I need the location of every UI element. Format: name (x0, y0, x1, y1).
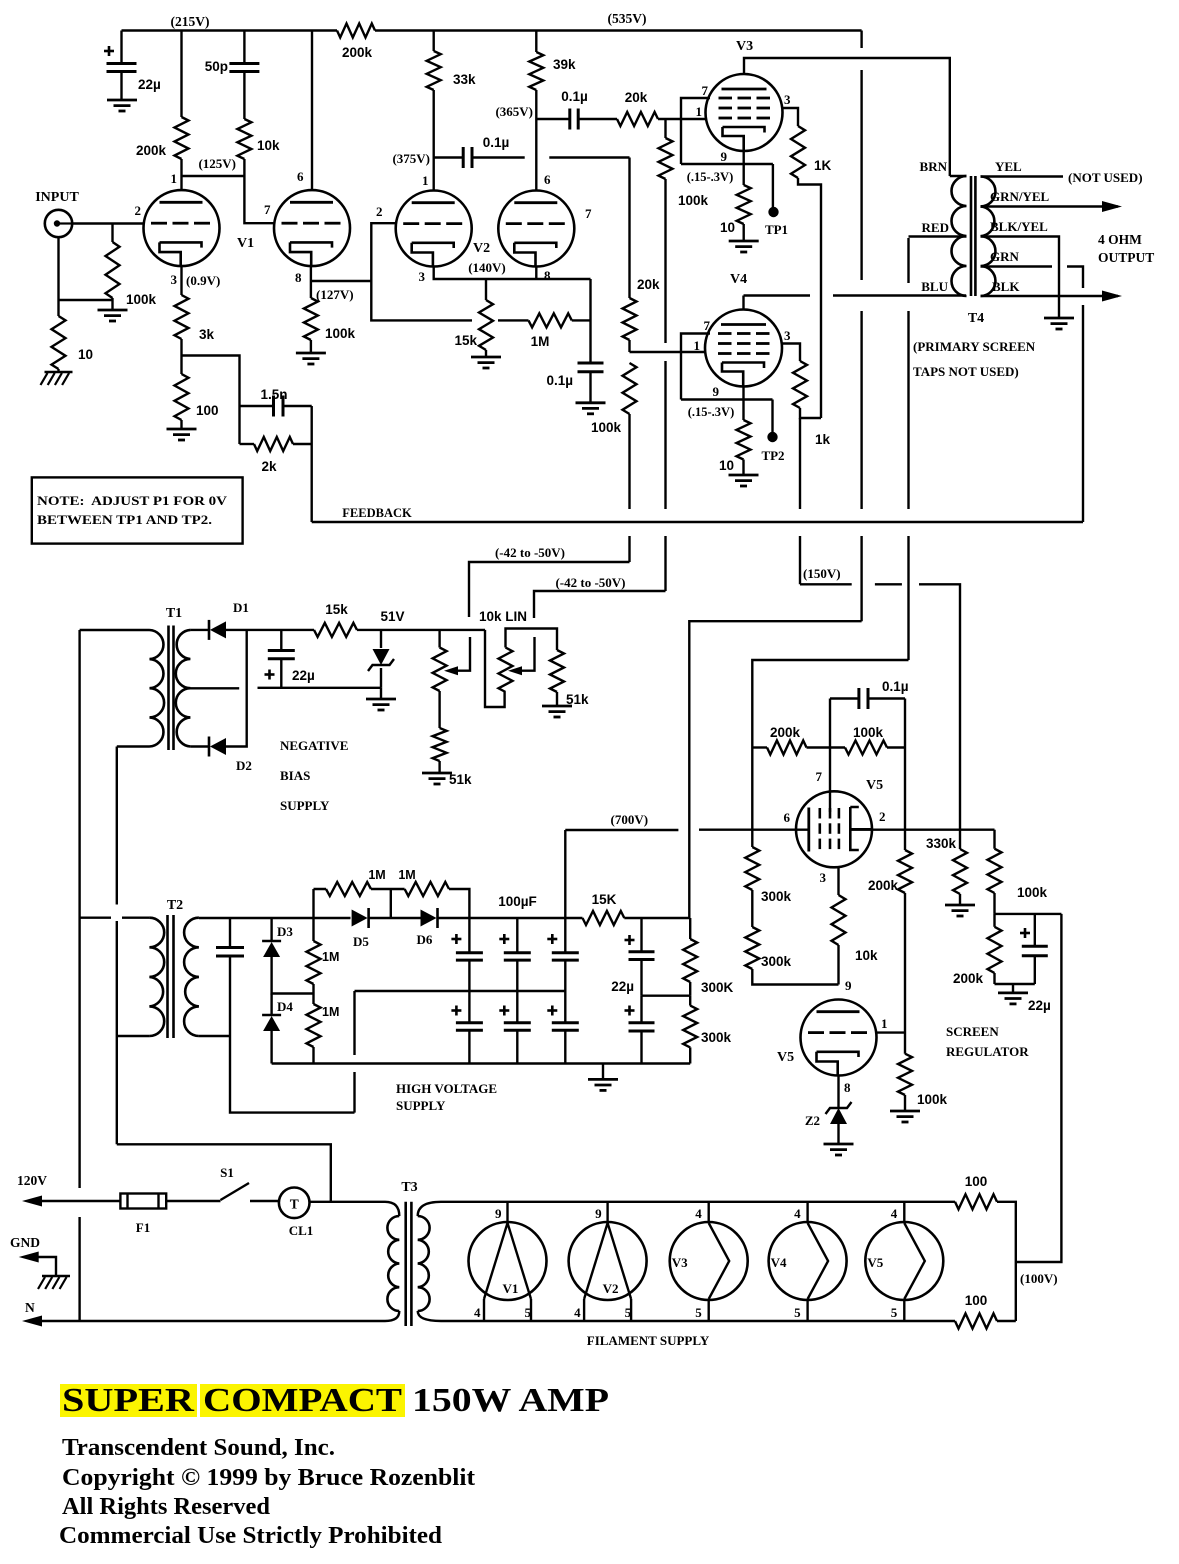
capacitor bank column 3 upper (564, 918, 566, 953)
resistor 51k (P1a to ground) (433, 728, 447, 761)
svg-text:SUPPLY: SUPPLY (280, 798, 330, 813)
svg-text:10: 10 (720, 220, 735, 235)
svg-text:33k: 33k (453, 72, 476, 87)
svg-text:(NOT USED): (NOT USED) (1068, 170, 1143, 185)
wire V4 cathode pin 9 (742, 386, 744, 420)
tube V2a (phase splitter) (396, 191, 472, 267)
svg-text:8: 8 (295, 270, 302, 285)
svg-text:22µ: 22µ (292, 668, 315, 683)
resistor 3k (V1a cathode) (180, 266, 182, 295)
transformer T1 core (167, 626, 170, 751)
svg-text:7: 7 (585, 206, 592, 221)
wire GND with arrow to earth (19, 1252, 39, 1263)
svg-text:BLK: BLK (992, 279, 1020, 294)
wire filament rail right side (997, 1202, 1016, 1321)
wire T2 primary bottom to hot rail (117, 1035, 150, 1037)
svg-text:1: 1 (694, 338, 701, 353)
resistor 10 (ground lift) (52, 316, 66, 369)
wire D5 to D6 (369, 917, 421, 919)
svg-text:V1: V1 (503, 1281, 519, 1296)
svg-text:1M: 1M (322, 1005, 339, 1019)
tube V1b (second triode) (274, 190, 350, 266)
transformer T1 primary winding (150, 630, 165, 747)
wire V2 cathode to 0.1u bypass (589, 279, 591, 363)
resistor 100 (V1a cathode) (180, 356, 182, 375)
ground (Z2) (824, 1143, 854, 1146)
svg-text:120V: 120V (17, 1173, 47, 1188)
wire 535V link to HV supply (689, 621, 861, 918)
capacitor bank column 1 lower (468, 991, 470, 1023)
ground (V4 10 ohm) (729, 474, 759, 477)
filament V3 (4-5 heater) (670, 1222, 748, 1300)
svg-text:D6: D6 (417, 932, 433, 947)
resistor 200k (V5a plate load to V5b) (904, 830, 906, 850)
svg-text:D1: D1 (233, 600, 249, 615)
svg-text:(125V): (125V) (198, 156, 236, 171)
svg-text:(140V): (140V) (468, 260, 506, 275)
svg-text:GND: GND (10, 1235, 40, 1250)
svg-text:1k: 1k (815, 432, 831, 447)
wire (100V) feed to filament supply (1016, 914, 1062, 1262)
svg-text:(375V): (375V) (392, 151, 430, 166)
svg-text:39k: 39k (553, 57, 576, 72)
svg-text:10k: 10k (257, 138, 280, 153)
transformer T3 primary winding (385, 1202, 399, 1216)
svg-text:0.1µ: 0.1µ (561, 89, 588, 104)
svg-text:V2: V2 (473, 241, 490, 256)
svg-text:SUPPLY: SUPPLY (396, 1098, 446, 1113)
resistor 300K (bleeder upper) (689, 918, 691, 939)
svg-text:10: 10 (78, 347, 93, 362)
svg-text:9: 9 (845, 978, 852, 993)
wire divider bottom link (995, 983, 1035, 985)
resistor 15K (HV dropper) (583, 911, 625, 925)
svg-text:51V: 51V (380, 609, 404, 624)
svg-text:22µ: 22µ (1028, 998, 1051, 1013)
wire 120V line with arrow (22, 1196, 42, 1207)
svg-text:6: 6 (784, 810, 791, 825)
svg-text:BETWEEN TP1 AND TP2.: BETWEEN TP1 AND TP2. (37, 513, 212, 527)
wire YEL lead (not used) (981, 175, 1064, 177)
capacitor 22u rail filter (120, 31, 122, 64)
current limiter CL1 (279, 1188, 310, 1219)
svg-text:T3: T3 (401, 1180, 417, 1195)
svg-text:1M: 1M (322, 950, 339, 964)
capacitor 1.5n (feedback) (240, 405, 274, 407)
wire V4 grid node to V4 pin 1 (630, 351, 706, 353)
diode D5 (367, 908, 370, 928)
svg-text:300k: 300k (761, 889, 792, 904)
wire 10k bottom to V1b grid pin7 (244, 159, 274, 223)
test point TP2 (771, 400, 773, 433)
svg-text:7: 7 (816, 769, 823, 784)
svg-text:100k: 100k (917, 1092, 948, 1107)
wire 51V rail loop to pot2 bottom (485, 630, 505, 707)
svg-text:1: 1 (171, 171, 178, 186)
svg-text:GRN: GRN (990, 249, 1020, 264)
wire T1 primary top to neutral rail (80, 629, 150, 631)
resistor 300k (screen reg divider lower) (751, 890, 753, 927)
resistor 2k (feedback) (240, 443, 255, 445)
resistor 200k (V1a plate load) (180, 31, 182, 118)
wire 51V rail (357, 629, 485, 631)
wire 20k chain from (375V) line down (628, 158, 630, 299)
svg-text:BRN: BRN (920, 159, 948, 174)
resistor 1M (cross-couple) (498, 319, 529, 321)
svg-text:FEEDBACK: FEEDBACK (342, 506, 412, 520)
svg-text:0.1µ: 0.1µ (546, 373, 573, 388)
svg-text:300k: 300k (761, 954, 792, 969)
wire GRN/YEL output lead with arrow (981, 205, 1119, 207)
svg-text:(-42 to -50V): (-42 to -50V) (495, 545, 565, 560)
resistor 100k (V4 grid leak) (623, 363, 637, 414)
svg-text:100k: 100k (325, 326, 356, 341)
svg-text:Copyright © 1999 by Bruce Roze: Copyright © 1999 by Bruce Rozenblit (62, 1465, 475, 1491)
wire hot rail to switch junction (117, 1144, 331, 1201)
svg-text:10: 10 (719, 458, 734, 473)
svg-text:FILAMENT SUPPLY: FILAMENT SUPPLY (587, 1333, 710, 1348)
wire V5a grid pin 3 to 10k (837, 867, 839, 895)
wire D2 output and rectifier junction (226, 630, 247, 747)
svg-text:(.15-.3V): (.15-.3V) (688, 405, 735, 419)
wire pin2 node corner to 100k (993, 830, 995, 849)
svg-text:(535V): (535V) (608, 11, 647, 26)
svg-text:T1: T1 (166, 606, 182, 621)
svg-text:3: 3 (419, 269, 426, 284)
wire T2 secondary top rail (199, 917, 351, 919)
transformer T4 primary winding (950, 175, 967, 178)
svg-text:3k: 3k (199, 327, 215, 342)
svg-text:V5: V5 (867, 1255, 883, 1270)
wire HV bottom rail (272, 1062, 691, 1064)
svg-text:NOTE: ADJUST P1 FOR 0V: NOTE: ADJUST P1 FOR 0V (37, 494, 227, 508)
svg-text:200k: 200k (868, 878, 899, 893)
transformer T4 core (970, 176, 973, 296)
wire V5a pin2 line to right network (850, 829, 994, 831)
svg-text:TP1: TP1 (765, 222, 788, 237)
svg-text:V3: V3 (672, 1255, 688, 1270)
svg-text:2: 2 (376, 204, 383, 219)
transformer T2 secondary winding (184, 918, 199, 1036)
fuse F1 (120, 1194, 166, 1209)
svg-text:8: 8 (544, 268, 551, 283)
svg-text:Z2: Z2 (805, 1113, 820, 1128)
wire V1b cathode pin8 node (127V) (311, 280, 371, 282)
earth ground (chassis) (42, 1275, 70, 1278)
wire 535V rail feed down (hops BLU line and feedback rail) (860, 31, 862, 622)
zener diode Z2 (830, 1108, 847, 1124)
wire V3 screen pin 3 (782, 108, 798, 126)
svg-text:10k LIN: 10k LIN (479, 609, 527, 624)
wire GRN lead to feedback (hops ground wire and BLK lead) (981, 267, 1084, 523)
resistor 1M (equalizer over D6) (405, 882, 449, 896)
ground (0.1u bypass) (576, 401, 606, 404)
svg-text:200k: 200k (136, 143, 167, 158)
svg-text:4: 4 (574, 1305, 581, 1320)
svg-text:SUPERCOMPACT150W AMP: SUPERCOMPACT150W AMP (62, 1382, 609, 1419)
wire V4 pin7 bracket to cathode node (681, 334, 773, 400)
wire P1a bottom to 51k (438, 691, 440, 728)
resistor 20k (V3 grid stopper) (578, 118, 617, 120)
svg-text:N: N (25, 1300, 35, 1315)
resistor 15k (V2 cathode) (485, 279, 487, 300)
wire V5a grid feed from RED node down (751, 748, 753, 848)
wire D1 output (226, 629, 314, 631)
svg-text:4: 4 (695, 1206, 702, 1221)
filament V5 (4-5 heater) (865, 1222, 943, 1300)
capacitor 50p (243, 31, 245, 64)
wire D3 to D4 junction (272, 957, 314, 994)
svg-text:300K: 300K (701, 980, 734, 995)
svg-text:50p: 50p (205, 59, 228, 74)
transformer T4 secondary winding (981, 177, 996, 297)
svg-text:V5: V5 (866, 778, 883, 793)
resistor 100k (V1b cathode) (310, 266, 312, 298)
ground (V1a cathode) (167, 428, 197, 431)
svg-text:20k: 20k (637, 277, 660, 292)
svg-text:15k: 15k (325, 602, 348, 617)
svg-text:T4: T4 (968, 311, 984, 326)
transformer T3 core (404, 1202, 407, 1326)
svg-text:20k: 20k (625, 90, 648, 105)
wire filament bottom rail (441, 1320, 955, 1322)
svg-text:1: 1 (696, 104, 703, 119)
svg-text:V2: V2 (603, 1281, 619, 1296)
zener diode 51V (380, 630, 382, 648)
wire jack sleeve down (57, 237, 59, 316)
capacitor 100uF bank column 1 upper (468, 918, 470, 953)
wire 200k to V5b pin1 and 100k (904, 893, 906, 1054)
wire 1K to screen feed junction (798, 178, 821, 418)
resistor 20k (V4 drive) (623, 298, 637, 340)
capacitor 22u (bias filter) (280, 630, 282, 651)
capacitor bank column 2 lower (516, 991, 518, 1023)
potentiometer P1b wiper (bias feed 2, hops 51V rail) (516, 637, 535, 671)
svg-text:TAPS NOT USED): TAPS NOT USED) (913, 364, 1019, 379)
wire V1b plate pin 6 from rail (311, 31, 313, 191)
transformer T1 secondary winding (176, 630, 191, 747)
svg-text:1: 1 (422, 173, 429, 188)
test point TP1 (772, 164, 774, 207)
resistor 15k (bias dropper) (314, 623, 357, 637)
tube V3 (output pentode) (706, 74, 783, 151)
svg-text:V4: V4 (730, 272, 747, 287)
ground (divider) (1012, 984, 1014, 993)
wire ground lift link (59, 299, 113, 301)
svg-text:D3: D3 (277, 924, 293, 939)
ground (V1b 100k) (296, 352, 326, 355)
svg-text:(PRIMARY SCREEN: (PRIMARY SCREEN (913, 339, 1036, 354)
wire screen junction down to (150V) line (hops feedback rail) (799, 418, 801, 584)
svg-text:BLK/YEL: BLK/YEL (990, 219, 1048, 234)
svg-text:V3: V3 (736, 39, 753, 54)
wire hot rail (hops T2 top lead) (116, 747, 118, 1145)
tube V1a (input triode) (144, 190, 220, 266)
resistor 10k (V5 coupling) (832, 895, 846, 945)
capacitor 22u lower (640, 996, 642, 1023)
svg-text:5: 5 (525, 1305, 532, 1320)
svg-text:(127V): (127V) (316, 287, 354, 302)
svg-text:4 OHM: 4 OHM (1098, 232, 1142, 247)
svg-text:4: 4 (474, 1305, 481, 1320)
wire V3 pin7 bracket to cathode node (681, 98, 773, 164)
transformer T3 secondary winding (418, 1202, 441, 1216)
wire V5b plate pin 1 (876, 1031, 905, 1033)
ground (HV supply) (602, 1064, 604, 1080)
svg-text:100k: 100k (591, 420, 622, 435)
ground (BLK/YEL) (1044, 317, 1074, 320)
svg-text:3: 3 (784, 328, 791, 343)
svg-text:100k: 100k (126, 292, 157, 307)
resistor 300k (screen reg divider upper) (745, 847, 759, 890)
svg-text:(.15-.3V): (.15-.3V) (687, 170, 734, 184)
wire V3 plate to transformer BRN (744, 58, 950, 176)
svg-text:(700V): (700V) (611, 812, 649, 827)
capacitor bank column 2 upper (516, 918, 518, 953)
wire V2 cathode bus (140V) (433, 266, 591, 279)
svg-text:22µ: 22µ (611, 979, 634, 994)
svg-text:3: 3 (820, 870, 827, 885)
wire 20k to V3 grid pin 1 (658, 118, 707, 120)
svg-text:200k: 200k (770, 725, 801, 740)
svg-text:INPUT: INPUT (35, 190, 79, 205)
wire V2a grid loop (371, 223, 472, 320)
svg-text:9: 9 (595, 1206, 602, 1221)
svg-text:9: 9 (495, 1206, 502, 1221)
wire RED feed to screen regulator network (752, 660, 908, 748)
wire 535V node rail (624, 917, 689, 919)
wire feedback rail (312, 521, 1083, 523)
wire doubler midpoint rail (355, 990, 566, 992)
resistor 200k (rail dropping resistor) (337, 24, 375, 38)
svg-text:SCREEN: SCREEN (946, 1024, 999, 1039)
svg-text:200k: 200k (342, 45, 373, 60)
note box (32, 477, 243, 543)
svg-text:Commercial Use Strictly Prohib: Commercial Use Strictly Prohibited (59, 1523, 443, 1549)
svg-text:(215V): (215V) (171, 14, 210, 29)
wire BLK/YEL lead to ground (981, 237, 1060, 319)
svg-text:NEGATIVE: NEGATIVE (280, 738, 348, 753)
wire V3 grid leak to bias (hops V4 grid wire and feedback rail) (664, 179, 666, 591)
potentiometer P1a element (438, 630, 440, 648)
svg-text:D2: D2 (236, 758, 252, 773)
wire T1 center tap (hops rectifier junction) (189, 687, 381, 690)
wire feedback network to feedback rail (311, 406, 313, 522)
diode D2 (190, 745, 209, 747)
svg-text:100µF: 100µF (498, 894, 537, 909)
svg-text:5: 5 (625, 1305, 632, 1320)
capacitor 0.1u (cathode bypass) (578, 362, 604, 365)
ground (15k) (471, 356, 501, 359)
svg-text:15k: 15k (454, 333, 477, 348)
resistor 39k (V2b plate load) (535, 31, 537, 53)
ground (51k pot2) (542, 705, 572, 708)
svg-text:1: 1 (881, 1016, 888, 1031)
svg-text:3: 3 (171, 272, 178, 287)
svg-text:6: 6 (544, 172, 551, 187)
svg-text:V1: V1 (237, 236, 254, 251)
svg-text:2: 2 (135, 203, 142, 218)
resistor 100k (V5a feedback) (845, 741, 887, 755)
svg-text:7: 7 (702, 83, 709, 98)
svg-text:1.5n: 1.5n (260, 387, 287, 402)
ground (330k) (945, 904, 975, 907)
svg-text:HIGH VOLTAGE: HIGH VOLTAGE (396, 1081, 497, 1096)
svg-text:(-42 to -50V): (-42 to -50V) (555, 575, 625, 590)
svg-text:7: 7 (704, 318, 711, 333)
diode D1 (208, 620, 211, 640)
resistor 1M (bleeder lower) (312, 984, 314, 1004)
potentiometer P1a wiper (bias feed 1, hops 51V rail) (452, 637, 470, 671)
svg-text:CL1: CL1 (289, 1223, 314, 1238)
svg-text:3: 3 (784, 92, 791, 107)
capacitor T2 snubber (229, 918, 231, 948)
resistor 330k (reference divider) (959, 830, 961, 849)
resistor 33k (V2a plate load) (433, 31, 435, 52)
svg-text:T: T (290, 1197, 299, 1212)
svg-text:S1: S1 (220, 1165, 234, 1180)
svg-text:100: 100 (965, 1293, 988, 1308)
earth ground (input) (45, 371, 73, 374)
wire 150V output node (995, 913, 1062, 915)
svg-text:BLU: BLU (921, 279, 948, 294)
svg-text:100k: 100k (1017, 885, 1048, 900)
svg-text:7: 7 (264, 202, 271, 217)
resistor 100k (input load) (111, 224, 113, 243)
potentiometer P1b element (499, 648, 513, 693)
svg-text:5: 5 (695, 1305, 702, 1320)
wire neutral line with arrow (22, 1316, 42, 1327)
wire divider to V5b grid pin 9 (752, 969, 838, 985)
resistor 100k (output divider upper) (988, 849, 1002, 893)
resistor 1k (V4 screen stopper) (793, 361, 807, 408)
wire 200k to 100k row (807, 746, 846, 748)
wire bias feed 2 (-42 to -50V) (534, 591, 666, 618)
diode D4 (262, 1014, 281, 1017)
svg-text:9: 9 (721, 149, 728, 164)
svg-text:100k: 100k (678, 193, 709, 208)
capacitor 0.1u (375V coupling) (462, 147, 465, 168)
svg-text:All Rights Reserved: All Rights Reserved (62, 1494, 271, 1520)
resistor 200k (V5a feedback) (752, 746, 767, 748)
ground (51k pot1) (422, 772, 452, 775)
resistor 10 (V3 cathode) (737, 185, 751, 224)
resistor 300k (bleeder lower) (689, 996, 691, 1006)
svg-text:200k: 200k (953, 971, 984, 986)
wire T1 primary bottom to hot rail (117, 745, 150, 747)
wire V3 cathode pin 9 (743, 151, 745, 186)
ground (22u cap) (107, 99, 137, 102)
ground (bias zener) (380, 688, 382, 699)
wire BLK output lead with arrow (981, 295, 1119, 297)
svg-text:15K: 15K (592, 892, 617, 907)
filament V2 (9-pin heater) (569, 1222, 647, 1300)
capacitor bank column 3 lower (564, 991, 566, 1023)
wire T2 secondary bottom lead (199, 1035, 230, 1037)
capacitor 0.1u (V5a compensation) (830, 697, 858, 699)
svg-text:330k: 330k (926, 836, 957, 851)
svg-text:300k: 300k (701, 1030, 732, 1045)
wire V4 grid leak to bias (hops feedback rail) (628, 414, 630, 562)
svg-text:1M: 1M (531, 334, 550, 349)
diode D6 (436, 908, 439, 928)
wire (700V) takeoff (565, 830, 678, 918)
title highlight (60, 1384, 197, 1417)
wire 1M-1M equalizer row (314, 889, 470, 918)
svg-text:5: 5 (891, 1305, 898, 1320)
wire 0.1u to 20k chain (hops V2b pin6 riser) (472, 156, 630, 158)
wire node (150V) to screen regulator (hops two verticals) (800, 584, 960, 829)
